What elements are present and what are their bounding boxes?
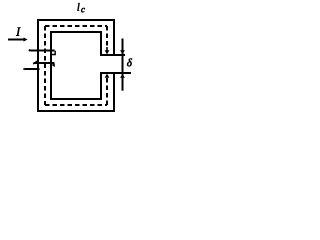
winding turn 2 right hook <box>51 63 54 67</box>
core outer boundary <box>38 20 114 111</box>
winding turn 1 wire <box>31 50 55 52</box>
gap dimension line <box>122 39 124 91</box>
winding turn 1 hook <box>52 51 55 55</box>
mean flux path dashed right upper <box>106 26 108 47</box>
dimension arrow upper <box>120 50 125 54</box>
winding lead wire <box>25 68 40 70</box>
winding turn 2 wire <box>34 62 55 64</box>
label lc : subscript c <box>81 8 85 12</box>
flux arrow into gap top <box>106 47 108 51</box>
air gap top edge <box>100 54 125 56</box>
air gap bottom edge <box>100 72 131 74</box>
mean flux path dashed left <box>44 26 46 105</box>
current arrow <box>8 39 24 41</box>
mean flux path dashed top <box>45 25 107 27</box>
mean flux path dashed bottom <box>45 104 107 106</box>
label I <box>16 28 21 36</box>
label lc : l <box>77 3 79 11</box>
winding turn 1 terminal diamond <box>28 49 31 52</box>
winding turn 2 left barb <box>33 61 37 64</box>
mean flux path dashed right lower <box>106 78 108 105</box>
winding lead terminal diamond <box>23 68 26 71</box>
flux arrow into gap bottom <box>105 74 110 78</box>
dimension arrow lower <box>120 74 125 78</box>
core window boundary <box>51 32 101 99</box>
label delta <box>127 59 132 67</box>
